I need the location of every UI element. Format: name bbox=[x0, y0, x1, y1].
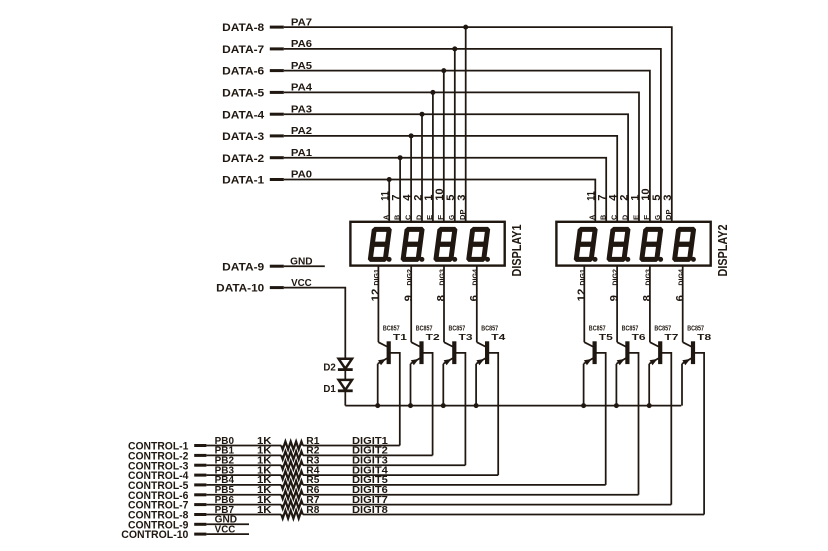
wire GND stub bbox=[284, 265, 325, 267]
DISPLAY1 segment pin 7 (B) bbox=[390, 195, 402, 220]
junction emitter T5 bbox=[581, 403, 586, 408]
svg-text:DIG2: DIG2 bbox=[405, 269, 414, 286]
svg-text:1K: 1K bbox=[257, 505, 272, 516]
net label DIGIT8 bbox=[352, 505, 388, 516]
svg-text:DATA-8: DATA-8 bbox=[222, 22, 264, 34]
label R7 bbox=[306, 495, 319, 506]
svg-text:T1: T1 bbox=[393, 332, 407, 342]
svg-text:F: F bbox=[438, 214, 445, 220]
wire D2 to D1 bbox=[344, 370, 346, 380]
wire emitter of T6 to bus bbox=[615, 364, 617, 406]
net label GND bbox=[290, 256, 312, 267]
DISPLAY1 digit pin 6 (DIG4) wire to transistor bbox=[468, 266, 480, 343]
net label PA5 bbox=[291, 61, 313, 72]
value 1K of R2 bbox=[257, 446, 272, 457]
wire base of T7 down to DIGIT7 bbox=[662, 353, 672, 505]
wire PA4 horizontal run and drop to DISPLAY2 pin bbox=[284, 92, 639, 221]
pin label DATA-6 bbox=[222, 66, 264, 78]
svg-text:DIG2: DIG2 bbox=[611, 269, 620, 286]
label R2 bbox=[306, 446, 319, 457]
pin label DATA-5 bbox=[222, 88, 264, 100]
svg-text:DATA-10: DATA-10 bbox=[216, 283, 264, 295]
junction PA4 at DISPLAY1 bbox=[430, 90, 435, 95]
transistor T5 (BC857 PNP) bbox=[584, 342, 597, 365]
DISPLAY2 digit pin 8 (DIG3) wire to transistor bbox=[642, 266, 654, 343]
svg-text:CONTROL-10: CONTROL-10 bbox=[121, 529, 188, 541]
svg-text:DIG3: DIG3 bbox=[644, 269, 653, 286]
pin stub CONTROL-5 bbox=[194, 483, 206, 486]
label T6 bbox=[632, 332, 646, 342]
svg-text:F: F bbox=[644, 214, 651, 220]
svg-text:3: 3 bbox=[456, 195, 468, 201]
svg-text:DP: DP bbox=[460, 209, 467, 220]
svg-text:DIG4: DIG4 bbox=[676, 268, 685, 285]
wire GND stub (control) bbox=[206, 523, 249, 525]
resistor R7 1K bbox=[281, 501, 303, 509]
DISPLAY2 digit pin 9 (DIG2) wire to transistor bbox=[609, 266, 621, 343]
svg-text:BC857: BC857 bbox=[654, 323, 671, 332]
7-segment display DISPLAY2 body bbox=[556, 222, 710, 266]
svg-text:D: D bbox=[622, 215, 629, 220]
junction PA5 at DISPLAY1 bbox=[441, 68, 446, 73]
diode D2 bbox=[338, 359, 353, 370]
net label PB2 bbox=[215, 456, 234, 467]
svg-text:DATA-4: DATA-4 bbox=[222, 109, 265, 121]
label BC857 of T3 bbox=[449, 323, 466, 332]
wire PA4 drop to DISPLAY1 pin bbox=[432, 92, 434, 221]
svg-text:9: 9 bbox=[403, 295, 415, 301]
DISPLAY1 segment pin 2 (D) bbox=[412, 195, 424, 220]
junction PA3 at DISPLAY1 bbox=[420, 112, 425, 117]
value 1K of R5 bbox=[257, 475, 272, 486]
junction PA0 at DISPLAY1 bbox=[387, 177, 392, 182]
wire DIGIT5 to base of T5 bbox=[303, 484, 606, 486]
junction PA2 at DISPLAY1 bbox=[409, 133, 414, 138]
label BC857 of T8 bbox=[687, 323, 704, 332]
svg-text:12: 12 bbox=[370, 289, 382, 302]
pin label DATA-9 bbox=[222, 261, 264, 273]
wire emitter of T2 to bus bbox=[410, 364, 412, 406]
label T8 bbox=[697, 332, 711, 342]
pin label CONTROL-2 bbox=[128, 451, 188, 463]
label T5 bbox=[599, 332, 613, 342]
wire PB1 to resistor R2 bbox=[206, 454, 281, 456]
wire PB5 to resistor R6 bbox=[206, 494, 281, 496]
label T1 bbox=[393, 332, 407, 342]
wire DIGIT3 to base of T3 bbox=[303, 464, 466, 466]
DISPLAY2 segment pin 1 (E) bbox=[629, 195, 641, 220]
label DISPLAY2 bbox=[715, 225, 730, 277]
svg-text:DP: DP bbox=[666, 209, 673, 220]
pin label DATA-8 bbox=[222, 22, 264, 34]
transistor T2 (BC857 PNP) bbox=[411, 342, 424, 365]
svg-text:BC857: BC857 bbox=[589, 323, 606, 332]
svg-text:C: C bbox=[405, 215, 412, 220]
DISPLAY1 segment pin 11 (A) bbox=[380, 191, 392, 220]
wire PA0 horizontal run and drop to DISPLAY2 pin bbox=[284, 180, 596, 222]
transistor T6 (BC857 PNP) bbox=[616, 342, 629, 365]
svg-text:6: 6 bbox=[468, 295, 480, 301]
svg-text:8: 8 bbox=[436, 295, 448, 301]
junction emitter T4 bbox=[474, 403, 479, 408]
pin stub DATA-8 bbox=[270, 26, 284, 29]
wire PB2 to resistor R3 bbox=[206, 464, 281, 466]
label T7 bbox=[664, 332, 678, 342]
label R6 bbox=[306, 485, 320, 496]
value 1K of R1 bbox=[257, 436, 272, 447]
svg-text:DATA-1: DATA-1 bbox=[222, 175, 264, 187]
wire emitter of T5 to bus bbox=[583, 364, 585, 406]
resistor R1 1K bbox=[281, 442, 303, 450]
svg-text:C: C bbox=[612, 215, 619, 220]
svg-text:T6: T6 bbox=[632, 332, 646, 342]
label R4 bbox=[306, 465, 320, 476]
net label PA0 bbox=[291, 170, 312, 181]
wire D1 to emitter bus bbox=[344, 391, 346, 406]
resistor R6 1K bbox=[281, 491, 303, 499]
wire PA5 drop to DISPLAY1 pin bbox=[443, 71, 445, 222]
DISPLAY2 digit pin 6 (DIG4) wire to transistor bbox=[674, 266, 686, 343]
DISPLAY1 segment pin 1 (E) bbox=[423, 195, 435, 220]
wire PA3 horizontal run and drop to DISPLAY2 pin bbox=[284, 114, 628, 222]
svg-text:E: E bbox=[633, 214, 640, 220]
svg-text:DATA-5: DATA-5 bbox=[222, 88, 264, 100]
pin label CONTROL-10 bbox=[121, 529, 188, 541]
svg-text:T3: T3 bbox=[459, 332, 473, 342]
net label PB3 bbox=[215, 465, 235, 476]
pin stub DATA-6 bbox=[270, 69, 284, 72]
wire PA1 horizontal run and drop to DISPLAY2 pin bbox=[284, 158, 606, 222]
label R1 bbox=[306, 436, 320, 447]
label BC857 of T1 bbox=[383, 323, 400, 332]
pin stub DATA-5 bbox=[270, 91, 284, 94]
transistor T8 (BC857 PNP) bbox=[682, 342, 695, 365]
value 1K of R4 bbox=[257, 465, 272, 476]
svg-text:DATA-7: DATA-7 bbox=[222, 44, 264, 56]
wire emitter of T3 to bus bbox=[442, 364, 444, 406]
wire emitter of T8 to bus bbox=[681, 364, 683, 406]
pin stub CONTROL-6 bbox=[194, 493, 206, 496]
label T2 bbox=[426, 332, 440, 342]
net label DIGIT2 bbox=[352, 446, 388, 457]
resistor R2 1K bbox=[281, 451, 303, 459]
svg-text:DIG4: DIG4 bbox=[470, 268, 479, 285]
wire DIGIT6 to base of T6 bbox=[303, 494, 639, 496]
pin label DATA-7 bbox=[222, 44, 264, 56]
svg-text:T2: T2 bbox=[426, 332, 440, 342]
pin stub DATA-9 bbox=[270, 265, 284, 268]
wire DIGIT7 to base of T7 bbox=[303, 504, 672, 506]
svg-text:8: 8 bbox=[642, 295, 654, 301]
svg-text:DATA-3: DATA-3 bbox=[222, 131, 264, 143]
net label DIGIT6 bbox=[352, 485, 388, 496]
net label DIGIT4 bbox=[352, 465, 388, 476]
svg-text:3: 3 bbox=[662, 195, 674, 201]
net label PB6 bbox=[215, 495, 235, 506]
net label PA2 bbox=[291, 126, 312, 137]
wire emitter of T7 to bus bbox=[648, 364, 650, 406]
net label GND (control) bbox=[215, 515, 237, 526]
transistor T3 (BC857 PNP) bbox=[443, 342, 456, 365]
pin label CONTROL-5 bbox=[128, 480, 188, 492]
DISPLAY1 digit pin 12 (DIG1) wire to transistor bbox=[370, 266, 382, 343]
wire base of T6 down to DIGIT6 bbox=[629, 353, 639, 495]
svg-text:DATA-2: DATA-2 bbox=[222, 153, 264, 165]
resistor R3 1K bbox=[281, 461, 303, 469]
pin label CONTROL-6 bbox=[128, 490, 188, 502]
wire PB6 to resistor R7 bbox=[206, 504, 281, 506]
resistor R4 1K bbox=[281, 471, 303, 479]
junction PA7 at DISPLAY1 bbox=[463, 25, 468, 30]
junction emitter T7 bbox=[647, 403, 652, 408]
wire PB4 to resistor R5 bbox=[206, 484, 281, 486]
net label DIGIT7 bbox=[352, 495, 388, 506]
diode D1 bbox=[338, 380, 353, 391]
svg-text:BC857: BC857 bbox=[687, 323, 704, 332]
DISPLAY2 segment pin 3 (DP) bbox=[662, 195, 674, 220]
wire emitter bus bbox=[345, 405, 681, 407]
net label PB1 bbox=[215, 446, 235, 457]
value 1K of R6 bbox=[257, 485, 272, 496]
DISPLAY1 segment pin 4 (C) bbox=[401, 194, 413, 220]
label T3 bbox=[459, 332, 473, 342]
label BC857 of T5 bbox=[589, 323, 606, 332]
net label DIGIT3 bbox=[352, 456, 388, 467]
svg-text:BC857: BC857 bbox=[622, 323, 639, 332]
svg-text:T7: T7 bbox=[664, 332, 678, 342]
wire PA1 drop to DISPLAY1 pin bbox=[399, 158, 401, 222]
wire DIGIT1 to base of T1 bbox=[303, 445, 400, 447]
net label PB0 bbox=[215, 436, 234, 447]
DISPLAY2 segment pin 5 (G) bbox=[651, 195, 663, 220]
pin stub DATA-10 bbox=[270, 286, 284, 289]
net label PA1 bbox=[291, 148, 313, 159]
wire base of T2 down to DIGIT2 bbox=[423, 353, 433, 456]
DISPLAY2 segment pin 11 (A) bbox=[586, 191, 598, 220]
pin label CONTROL-1 bbox=[128, 441, 188, 453]
wire DIGIT8 to base of T8 bbox=[303, 514, 704, 516]
DISPLAY2 segment pin 2 (D) bbox=[618, 195, 630, 220]
wire PA6 horizontal run and drop to DISPLAY2 pin bbox=[284, 49, 661, 222]
value 1K of R7 bbox=[257, 495, 272, 506]
net label PA7 bbox=[291, 17, 312, 28]
wire VCC stub (control) bbox=[206, 533, 249, 535]
pin stub DATA-2 bbox=[270, 156, 284, 159]
wire PB7 to resistor R8 bbox=[206, 514, 281, 516]
wire PA7 horizontal run and drop to DISPLAY2 pin bbox=[284, 27, 672, 222]
svg-text:BC857: BC857 bbox=[416, 323, 433, 332]
label BC857 of T6 bbox=[622, 323, 639, 332]
pin label DATA-2 bbox=[222, 153, 264, 165]
7-segment display DISPLAY1 body bbox=[350, 222, 504, 266]
junction PA1 at DISPLAY1 bbox=[398, 155, 403, 160]
label R3 bbox=[306, 456, 320, 467]
wire PA5 horizontal run and drop to DISPLAY2 pin bbox=[284, 71, 650, 222]
DISPLAY2 segment pin 7 (B) bbox=[597, 195, 609, 220]
svg-text:D: D bbox=[416, 215, 423, 220]
junction emitter T3 bbox=[441, 403, 446, 408]
pin label CONTROL-9 bbox=[128, 519, 188, 531]
wire base of T8 down to DIGIT8 bbox=[695, 353, 705, 515]
wire PA3 drop to DISPLAY1 pin bbox=[421, 114, 423, 222]
label DISPLAY1 bbox=[509, 225, 524, 277]
pin label DATA-10 bbox=[216, 283, 264, 295]
net label PB5 bbox=[215, 485, 235, 496]
wire PA7 drop to DISPLAY1 pin bbox=[465, 27, 467, 222]
svg-text:6: 6 bbox=[674, 295, 686, 301]
resistor R8 1K bbox=[281, 511, 303, 519]
DISPLAY1 digit pin 8 (DIG3) wire to transistor bbox=[436, 266, 448, 343]
DISPLAY1 segment pin 3 (DP) bbox=[456, 195, 468, 220]
net label VCC (control) bbox=[215, 524, 236, 535]
pin label DATA-4 bbox=[222, 109, 265, 121]
pin stub CONTROL-9 bbox=[194, 523, 206, 526]
wire DIGIT2 to base of T2 bbox=[303, 454, 433, 456]
DISPLAY1 digit pin 9 (DIG2) wire to transistor bbox=[403, 266, 415, 343]
pin stub CONTROL-8 bbox=[194, 513, 206, 516]
pin stub DATA-1 bbox=[270, 178, 284, 181]
pin stub CONTROL-10 bbox=[194, 533, 206, 536]
net label VCC bbox=[291, 278, 312, 289]
svg-text:T4: T4 bbox=[491, 332, 505, 342]
svg-text:DIG3: DIG3 bbox=[438, 269, 447, 286]
wire emitter of T1 to bus bbox=[377, 364, 379, 406]
svg-text:B: B bbox=[394, 215, 401, 220]
svg-text:BC857: BC857 bbox=[481, 323, 498, 332]
wire base of T4 down to DIGIT4 bbox=[489, 353, 499, 475]
value 1K of R8 bbox=[257, 505, 272, 516]
pin stub DATA-4 bbox=[270, 113, 284, 116]
svg-text:BC857: BC857 bbox=[449, 323, 466, 332]
label BC857 of T4 bbox=[481, 323, 498, 332]
label R8 bbox=[306, 505, 320, 516]
svg-text:DISPLAY1: DISPLAY1 bbox=[509, 225, 524, 277]
DISPLAY2 segment pin 4 (C) bbox=[608, 194, 620, 220]
junction PA6 at DISPLAY1 bbox=[452, 46, 457, 51]
label BC857 of T2 bbox=[416, 323, 433, 332]
pin label DATA-3 bbox=[222, 131, 264, 143]
net label DIGIT5 bbox=[352, 475, 388, 486]
svg-text:9: 9 bbox=[609, 295, 621, 301]
resistor R5 1K bbox=[281, 481, 303, 489]
pin stub CONTROL-4 bbox=[194, 474, 206, 477]
svg-text:A: A bbox=[590, 215, 597, 220]
label T4 bbox=[491, 332, 505, 342]
wire PB0 to resistor R1 bbox=[206, 445, 281, 447]
DISPLAY1 segment pin 5 (G) bbox=[445, 195, 457, 220]
wire PA2 horizontal run and drop to DISPLAY2 pin bbox=[284, 136, 617, 222]
wire base of T3 down to DIGIT3 bbox=[456, 353, 466, 465]
junction emitter T1 bbox=[375, 403, 380, 408]
transistor T7 (BC857 PNP) bbox=[649, 342, 662, 365]
junction emitter T6 bbox=[614, 403, 619, 408]
svg-text:E: E bbox=[427, 214, 434, 220]
wire PA6 drop to DISPLAY1 pin bbox=[454, 49, 456, 222]
svg-text:BC857: BC857 bbox=[383, 323, 400, 332]
svg-text:DISPLAY2: DISPLAY2 bbox=[715, 225, 730, 277]
label D1 bbox=[323, 383, 336, 395]
pin stub CONTROL-7 bbox=[194, 503, 206, 506]
pin stub CONTROL-3 bbox=[194, 464, 206, 467]
wire PB3 to resistor R4 bbox=[206, 474, 281, 476]
net label PB4 bbox=[215, 475, 235, 486]
value 1K of R3 bbox=[257, 456, 272, 467]
pin stub DATA-3 bbox=[270, 134, 284, 137]
transistor T4 (BC857 PNP) bbox=[476, 342, 489, 365]
pin stub CONTROL-2 bbox=[194, 454, 206, 457]
svg-text:DATA-6: DATA-6 bbox=[222, 66, 264, 78]
net label PA6 bbox=[291, 39, 313, 50]
wire PA2 drop to DISPLAY1 pin bbox=[410, 136, 412, 222]
svg-text:T8: T8 bbox=[697, 332, 711, 342]
net label PB7 bbox=[215, 505, 234, 516]
DISPLAY1 segment pin 10 (F) bbox=[434, 189, 446, 221]
svg-text:DIG1: DIG1 bbox=[372, 269, 381, 286]
wire base of T1 down to DIGIT1 bbox=[390, 353, 400, 446]
svg-text:D2: D2 bbox=[323, 362, 336, 374]
svg-text:T5: T5 bbox=[599, 332, 613, 342]
junction emitter T2 bbox=[408, 403, 413, 408]
svg-text:A: A bbox=[384, 215, 391, 220]
transistor T1 (BC857 PNP) bbox=[378, 342, 391, 365]
net label DIGIT1 bbox=[352, 436, 388, 447]
svg-text:B: B bbox=[601, 215, 608, 220]
svg-text:12: 12 bbox=[576, 289, 588, 302]
svg-text:DATA-9: DATA-9 bbox=[222, 261, 264, 273]
pin stub DATA-7 bbox=[270, 47, 284, 50]
svg-text:G: G bbox=[449, 214, 456, 220]
svg-text:DIG1: DIG1 bbox=[578, 269, 587, 286]
wire PA0 drop to DISPLAY1 pin bbox=[388, 180, 390, 222]
DISPLAY2 segment pin 10 (F) bbox=[640, 189, 652, 221]
pin label CONTROL-7 bbox=[128, 500, 188, 512]
DISPLAY2 digit pin 12 (DIG1) wire to transistor bbox=[576, 266, 588, 343]
net label PA4 bbox=[291, 83, 313, 94]
wire VCC to diode column bbox=[284, 288, 346, 359]
pin label CONTROL-3 bbox=[128, 460, 188, 472]
wire emitter of T4 to bus bbox=[475, 364, 477, 406]
svg-text:G: G bbox=[655, 214, 662, 220]
label BC857 of T7 bbox=[654, 323, 671, 332]
label R5 bbox=[306, 475, 320, 486]
pin stub CONTROL-1 bbox=[194, 444, 206, 447]
wire base of T5 down to DIGIT5 bbox=[596, 353, 606, 485]
label D2 bbox=[323, 362, 336, 374]
pin label CONTROL-8 bbox=[128, 510, 188, 522]
pin label DATA-1 bbox=[222, 175, 264, 187]
net label PA3 bbox=[291, 104, 313, 115]
svg-text:D1: D1 bbox=[323, 383, 336, 395]
pin label CONTROL-4 bbox=[128, 470, 189, 482]
wire DIGIT4 to base of T4 bbox=[303, 474, 498, 476]
